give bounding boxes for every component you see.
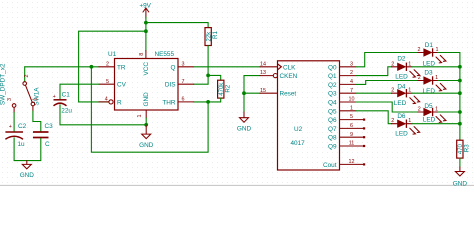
pin 3 Q0 <box>340 66 357 68</box>
junction gnd under 555 <box>144 123 148 127</box>
svg-text:4017: 4017 <box>291 140 306 147</box>
svg-text:15: 15 <box>260 88 266 94</box>
pin 14 CLK <box>260 66 278 68</box>
wire switch left throw to C2 <box>13 113 15 132</box>
svg-text:LED: LED <box>395 131 408 138</box>
LED D2 <box>391 55 420 80</box>
junction TR <box>90 65 94 69</box>
junction rail D2 <box>458 65 462 69</box>
svg-text:14: 14 <box>260 61 266 67</box>
svg-text:LED: LED <box>423 88 436 95</box>
junction rail D3 <box>458 79 462 83</box>
svg-text:THR: THR <box>162 99 176 106</box>
counter U2 4017 body <box>278 61 340 170</box>
svg-text:GND: GND <box>237 125 252 132</box>
svg-text:8: 8 <box>139 53 145 56</box>
svg-text:Q: Q <box>171 64 176 71</box>
wire loop THR to TR <box>91 67 208 152</box>
svg-text:Q7: Q7 <box>328 126 337 133</box>
LED D3 <box>418 70 446 95</box>
svg-text:D3: D3 <box>424 70 433 77</box>
junction +9V rail left <box>144 29 148 33</box>
svg-text:Q0: Q0 <box>328 64 337 71</box>
LED D4 <box>391 84 420 107</box>
LED D5 <box>418 103 446 124</box>
wire D2 cathode to rail <box>412 66 460 68</box>
wire rail left to reset pin <box>79 31 146 102</box>
pin 10 Q4 <box>340 101 357 103</box>
svg-text:1: 1 <box>33 98 39 101</box>
junction reset/gnd <box>242 91 246 95</box>
svg-text:GND: GND <box>143 92 150 107</box>
LED D6 <box>391 113 420 138</box>
svg-text:R2: R2 <box>224 84 231 92</box>
wire D5 cathode to rail <box>438 111 460 113</box>
svg-text:CLK: CLK <box>283 64 296 71</box>
wire rail to R1 top <box>146 23 208 28</box>
svg-text:Q3: Q3 <box>328 91 337 98</box>
resistor R2 <box>218 80 232 98</box>
ground bottom-left <box>20 161 35 179</box>
svg-text:+: + <box>9 124 12 130</box>
svg-text:Q4: Q4 <box>328 100 337 107</box>
junction +9V rail right <box>144 21 148 25</box>
ground under 555 <box>139 125 154 149</box>
svg-text:1u: 1u <box>18 141 26 148</box>
wire TR row <box>25 66 99 68</box>
svg-text:LED: LED <box>394 100 407 107</box>
ground bottom-right <box>453 167 468 188</box>
svg-text:U1: U1 <box>108 51 117 58</box>
svg-text:LED: LED <box>395 73 408 80</box>
power +9V <box>139 2 151 18</box>
pin 7 Q3 <box>340 92 357 94</box>
wire D3 cathode to rail <box>438 80 460 82</box>
svg-text:NE555: NE555 <box>155 51 175 58</box>
svg-text:CV: CV <box>117 82 127 89</box>
svg-text:9: 9 <box>350 132 353 138</box>
svg-text:6: 6 <box>350 123 353 129</box>
pin 5 Q6 <box>340 119 364 121</box>
wire THR pin <box>194 101 208 103</box>
svg-text:Reset: Reset <box>280 91 297 98</box>
svg-text:GND: GND <box>453 181 468 188</box>
wire R1 bottom to DIS junction <box>207 46 209 85</box>
svg-text:3: 3 <box>350 61 353 67</box>
wire D6 cathode to rail <box>412 123 460 125</box>
ground near 4017 <box>237 112 252 132</box>
pin 2 Q1 <box>340 75 357 77</box>
wire CKEN to gnd drop <box>244 76 260 112</box>
svg-text:1: 1 <box>350 105 353 111</box>
wire Q2 to D3 <box>356 81 418 85</box>
svg-text:TR: TR <box>117 64 126 71</box>
wire D1 cathode to rail <box>438 52 460 54</box>
pin 3 Q <box>178 66 194 68</box>
wire Q5 to D6 <box>356 111 392 124</box>
svg-text:13: 13 <box>260 70 266 76</box>
svg-text:5: 5 <box>350 114 353 120</box>
svg-text:Q1: Q1 <box>328 73 337 80</box>
capacitor C3 <box>33 123 53 148</box>
pin 6 THR <box>178 101 194 103</box>
svg-text:10: 10 <box>349 97 355 103</box>
svg-text:U2: U2 <box>294 126 303 133</box>
wire jog to R2 top <box>208 75 221 80</box>
svg-text:7: 7 <box>182 79 185 85</box>
svg-text:CKEN: CKEN <box>280 73 298 80</box>
svg-text:5: 5 <box>106 79 109 85</box>
pin 15 Reset <box>260 92 278 94</box>
svg-text:22u: 22u <box>61 108 72 115</box>
capacitor C2 <box>5 123 26 148</box>
sheet border <box>0 184 474 186</box>
capacitor C1 <box>53 92 73 115</box>
wire Q4 to D5 <box>356 102 418 112</box>
wire Q0 to D1 <box>356 53 418 67</box>
pin 1 Q5 <box>340 110 357 112</box>
svg-text:R: R <box>117 99 122 106</box>
svg-text:2: 2 <box>24 75 30 78</box>
wire R3 bottom to gnd <box>459 158 461 167</box>
svg-text:Q5: Q5 <box>328 108 337 115</box>
svg-text:2: 2 <box>350 70 353 76</box>
svg-text:R1: R1 <box>212 30 219 38</box>
wire C2 C3 bottoms to gnd <box>14 138 41 161</box>
svg-text:4: 4 <box>105 97 108 103</box>
svg-text:6: 6 <box>182 97 185 103</box>
junction THR/R2/loop <box>206 100 210 104</box>
wire reset <box>244 92 260 94</box>
svg-text:Q9: Q9 <box>328 144 337 151</box>
pin 7 DIS <box>178 83 194 85</box>
pin 1 GND <box>145 110 147 118</box>
svg-text:C1: C1 <box>62 92 71 99</box>
resistor R3 <box>457 140 471 158</box>
pin 4 Q2 <box>340 83 357 85</box>
op-amp U1 NE555 body <box>108 51 178 110</box>
pin 5 CV <box>99 83 115 85</box>
pin 12 Cout <box>340 163 364 165</box>
wire DIS pin <box>194 83 208 85</box>
wire D4 cathode to rail <box>412 92 460 94</box>
wire C1 bottom to gnd junction <box>60 105 146 125</box>
svg-text:R3: R3 <box>464 144 471 152</box>
junction rail D4 <box>458 91 462 95</box>
svg-text:12: 12 <box>349 159 355 165</box>
svg-text:Q6: Q6 <box>328 117 337 124</box>
svg-text:GND: GND <box>20 172 35 179</box>
wire CV to C1 <box>60 84 99 99</box>
svg-text:LED: LED <box>423 117 436 124</box>
wire +9V stem to VCC <box>145 17 147 51</box>
pin 2 TR <box>99 66 115 68</box>
svg-text:SW_DPDT_x2: SW_DPDT_x2 <box>0 63 7 105</box>
svg-text:Q8: Q8 <box>328 135 337 142</box>
junction rail D6 <box>458 122 462 126</box>
svg-text:D2: D2 <box>397 55 406 62</box>
pin 11 Q9 <box>340 145 364 147</box>
svg-text:11: 11 <box>349 141 355 147</box>
wire Q3 to D4 <box>356 92 392 94</box>
pin 8 VCC <box>145 51 147 59</box>
wire Q1 to D2 <box>356 67 392 76</box>
junction R1/R2/DIS <box>206 74 210 78</box>
svg-text:Cout: Cout <box>323 162 337 169</box>
wire switch right throw to C3 <box>33 111 41 131</box>
pin 4 R inverted <box>99 101 109 103</box>
svg-text:C: C <box>45 141 50 148</box>
pin 9 Q8 <box>340 136 364 138</box>
wire R2 bottom to THR junction <box>208 98 221 102</box>
svg-text:D6: D6 <box>397 113 406 120</box>
svg-text:Q2: Q2 <box>328 82 337 89</box>
svg-text:4: 4 <box>350 79 353 85</box>
svg-text:C2: C2 <box>18 123 27 130</box>
switch SW1A <box>0 63 41 112</box>
svg-text:3: 3 <box>7 98 13 101</box>
wire TR riser to switch <box>24 67 26 82</box>
pin 6 Q7 <box>340 127 364 129</box>
pin 13 CKEN inverted <box>260 75 273 77</box>
svg-text:GND: GND <box>139 142 154 149</box>
LED D1 <box>418 42 446 68</box>
svg-text:C3: C3 <box>45 123 54 130</box>
svg-text:1: 1 <box>137 115 143 118</box>
svg-text:DIS: DIS <box>165 82 176 89</box>
LED rail <box>459 53 461 141</box>
wire 555 gnd pin to junction <box>145 118 147 125</box>
svg-text:VCC: VCC <box>143 62 150 76</box>
svg-text:D1: D1 <box>425 42 434 49</box>
svg-text:2: 2 <box>106 61 109 67</box>
wire Q to CLK <box>194 66 260 68</box>
svg-text:7: 7 <box>350 88 353 94</box>
resistor R1 <box>205 28 219 46</box>
junction rail D5 <box>458 110 462 114</box>
svg-text:3: 3 <box>182 61 185 67</box>
